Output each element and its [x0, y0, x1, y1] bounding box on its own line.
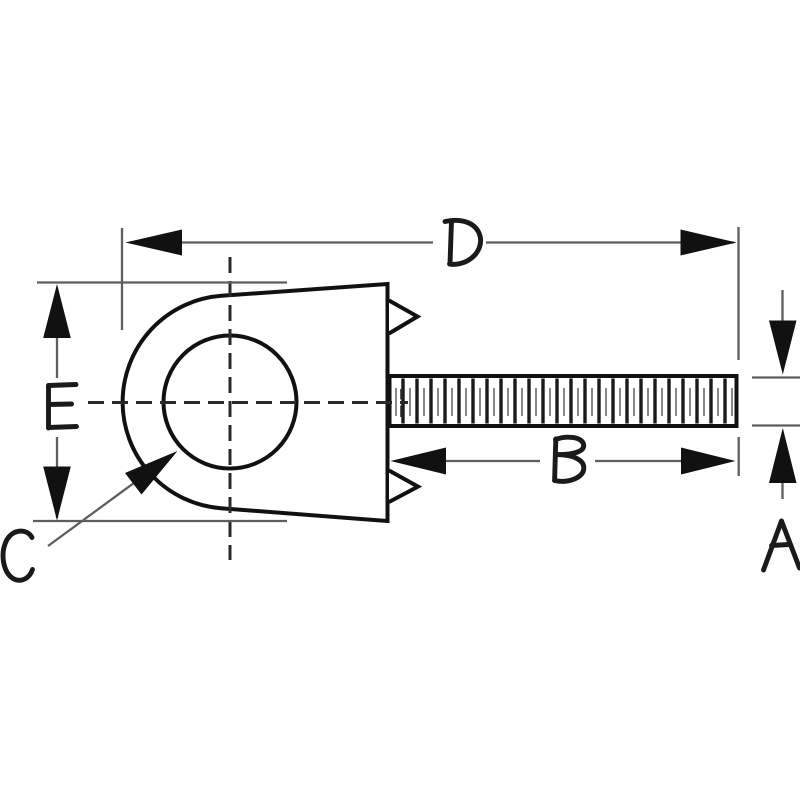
horizontal centerline [88, 401, 408, 404]
dimension A lower leader line [781, 483, 783, 499]
label E [49, 385, 77, 429]
dimension D extension line left [121, 228, 123, 330]
dimension D left arrowhead [126, 230, 183, 256]
stud-axis center tick [400, 389, 403, 417]
dimension A upper arrowhead [769, 321, 797, 375]
dimension B extension line [738, 437, 740, 476]
label A [764, 521, 800, 570]
dimension E line [56, 336, 58, 518]
label C arrowhead [125, 451, 178, 495]
thread root lines (thin inner lines) [396, 388, 732, 416]
vertical centerline [229, 257, 232, 560]
dimension E top arrowhead [43, 284, 71, 338]
dimension A lower arrowhead [769, 428, 797, 483]
top prong point [389, 301, 418, 334]
dimension A bottom witness tick [752, 424, 800, 426]
clevis body outline [123, 284, 388, 521]
label D [445, 220, 481, 264]
eye hole circle [164, 336, 297, 469]
dimension D line [130, 241, 734, 243]
thread crest lines (dark dividers) [403, 379, 725, 424]
label B [555, 437, 584, 481]
dimension B line [446, 460, 681, 462]
threaded stud (shank rectangle) [390, 376, 737, 426]
dimension B right arrowhead [681, 448, 736, 475]
dimension A top witness tick [752, 376, 800, 378]
dimension A upper leader line [781, 290, 783, 322]
bottom prong point [389, 471, 418, 503]
label C leader line [48, 480, 138, 546]
dimension E bottom arrowhead [43, 467, 71, 521]
dimension E top witness line [37, 281, 287, 283]
label C [3, 531, 32, 580]
dimension E bottom witness line [33, 520, 287, 522]
dimension D extension line right [737, 227, 739, 360]
dimension D right arrowhead [681, 230, 737, 256]
dimension B left arrowhead [391, 448, 447, 475]
